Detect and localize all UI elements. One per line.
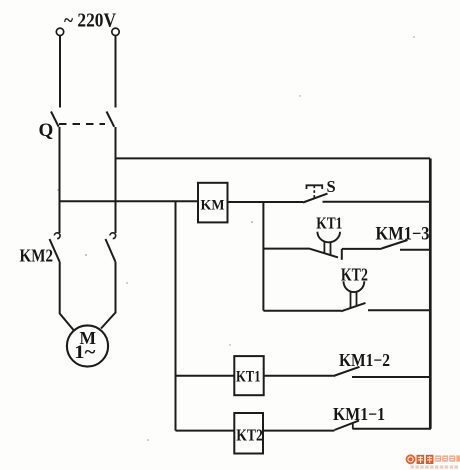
- svg-text:KM2: KM2: [20, 246, 54, 266]
- svg-text:Q: Q: [39, 120, 54, 141]
- svg-text:KT1: KT1: [236, 369, 261, 386]
- svg-text:1~: 1~: [74, 342, 95, 363]
- svg-text:KM: KM: [201, 198, 225, 214]
- svg-text:S: S: [327, 177, 336, 196]
- svg-text:~ 220V: ~ 220V: [64, 10, 116, 32]
- svg-text:KM1−1: KM1−1: [333, 404, 385, 424]
- svg-text:KM1−2: KM1−2: [339, 350, 390, 370]
- svg-text:KM1−3: KM1−3: [376, 225, 430, 245]
- svg-text:KT1: KT1: [316, 214, 342, 233]
- svg-text:KT2: KT2: [341, 265, 368, 285]
- svg-text:KT2: KT2: [236, 426, 262, 445]
